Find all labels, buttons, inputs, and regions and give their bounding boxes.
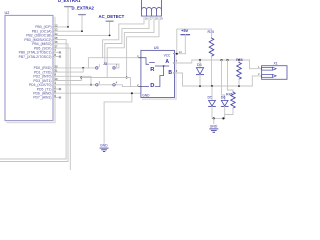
wire PD7 no-connect stub (53, 97, 61, 99)
junction dot leg4 on mid rail (126, 77, 128, 79)
ground GND (right) (210, 124, 218, 132)
svg-text:R30: R30 (208, 30, 215, 34)
U5 pin stubs (139, 54, 176, 87)
svg-text:GND: GND (142, 93, 150, 97)
svg-text:VCC: VCC (164, 53, 171, 57)
jumper J3 pin1 (96, 67, 98, 69)
wire top bus drop to R45 (228, 60, 234, 92)
U5 internal A-B link (163, 66, 165, 76)
wire J3 pin3 to pin4 row (98, 84, 113, 86)
connector X1 (258, 61, 287, 79)
IC U5 body (141, 50, 175, 97)
wire PB3 down to bottom-left exit (0, 40, 66, 159)
wire down to GND symbol (103, 102, 105, 143)
wire top bus drop to D6 (222, 60, 225, 100)
svg-text:D4: D4 (197, 63, 202, 67)
power +5V symbol (181, 28, 190, 54)
wire PB6 no-connect stub (53, 52, 61, 54)
filter pin numbers (145, 17, 163, 20)
IC U5 shadow (143, 52, 177, 99)
wire PD0 to J3 pin1 (53, 67, 96, 69)
svg-text:PB7_(XTAL2/TOSC2): PB7_(XTAL2/TOSC2) (19, 55, 52, 59)
svg-text:2: 2 (258, 72, 260, 76)
junction dot PB2 corner (109, 35, 111, 37)
svg-text:1: 1 (99, 64, 101, 68)
svg-text:1: 1 (258, 65, 260, 69)
resistor R30 (208, 29, 215, 86)
wire PB5 down to bottom exit (53, 48, 70, 170)
svg-text:D_EXTRA1: D_EXTRA1 (58, 0, 81, 3)
wire filter leg2 staircase to J3 pin2 (105, 16, 149, 68)
svg-text:D5: D5 (208, 96, 213, 100)
svg-text:3: 3 (99, 81, 101, 85)
junction dot PD0/PD1 (82, 67, 84, 69)
svg-text:4: 4 (116, 81, 118, 85)
J3 pin numbers (99, 64, 118, 85)
svg-text:26: 26 (145, 17, 148, 20)
svg-text:D6: D6 (221, 96, 226, 100)
wire PB4 down to bottom-left exit (0, 44, 68, 162)
wire branch up to U5 R line (88, 58, 140, 68)
wire filter leg3 staircase to mid rail (107, 16, 154, 77)
svg-text:J3: J3 (103, 62, 107, 66)
jumper J3 pin2 (113, 67, 115, 69)
svg-text:D_EXTRA2: D_EXTRA2 (72, 6, 95, 11)
bottom bus wire (212, 117, 225, 119)
wire top bus to X1 pin1 (250, 60, 262, 69)
chip U2 body (5, 15, 53, 120)
wire PD4 row to J3 pin3 (53, 84, 96, 86)
jumper J3 pin4 (113, 84, 115, 86)
net label D_EXTRA2 (72, 6, 95, 15)
wire mid rail to U5 D feed (81, 78, 130, 87)
diode D5 (208, 86, 216, 118)
chip U2 PB pin numbers (54, 23, 58, 57)
svg-text:X1: X1 (274, 61, 278, 65)
chip U2 PD pin labels (29, 66, 52, 100)
ground GND (left) (100, 144, 108, 152)
svg-text:28: 28 (155, 17, 158, 20)
wire PB1 to D_EXTRA2 (53, 15, 82, 32)
wire U5 A output to top bus (175, 60, 250, 63)
junction dot PB0 corner (67, 26, 69, 28)
svg-text:A: A (165, 59, 169, 65)
bottom bus dots (213, 117, 215, 119)
U5 pin numbers (137, 50, 182, 87)
wire U5 B output to lower bus (175, 73, 183, 86)
svg-text:27: 27 (150, 17, 153, 20)
resistor R45 (225, 92, 236, 115)
diode D4 (196, 60, 203, 86)
svg-text:U2: U2 (5, 11, 10, 15)
U5 internal R input glyph (141, 58, 169, 66)
chip U2 PB pin labels (19, 25, 52, 59)
svg-text:B: B (168, 70, 172, 76)
wire J3 pin4 to U5 D input (115, 85, 141, 87)
wire filter leg4 staircase to mid rail (127, 16, 159, 77)
junction dot VCC (176, 53, 178, 55)
wire lower bus to X1 pin2 (252, 76, 261, 86)
filter network (clipped at top) (142, 0, 162, 16)
wire GND rail to PD6/U5 GND line (104, 93, 132, 102)
net label D_EXTRA1 (clipped at top) (58, 0, 81, 7)
svg-text:AC_DETECT: AC_DETECT (99, 14, 125, 19)
resistor R28 (236, 58, 243, 86)
chip U2 PD pin numbers (54, 64, 58, 98)
top bus junction dots (199, 59, 201, 61)
U5 internal D input glyph (141, 76, 164, 87)
wire PD1 up to PD0 (53, 68, 83, 72)
wire PD5 no-connect stub (53, 88, 61, 90)
wire filter leg1 staircase to U5 R net (103, 16, 144, 58)
wire PD2 elbow to PD4 row (53, 76, 91, 85)
lower bus wire (183, 85, 253, 87)
junction dot PD2 join (90, 84, 92, 86)
svg-text:PD7_(AIN1): PD7_(AIN1) (33, 96, 51, 100)
wire to right GND (213, 118, 215, 123)
svg-text:GND: GND (210, 124, 218, 128)
wire PB2 to AC_DETECT (53, 21, 110, 35)
lower bus junction dots (199, 85, 201, 87)
wire PB0 to D_EXTRA1 (53, 7, 68, 27)
svg-text:+5V: +5V (181, 28, 189, 33)
jumper J3 pin3 (96, 84, 98, 86)
wire PB7 no-connect stub (53, 56, 61, 58)
svg-text:U5: U5 (154, 46, 159, 50)
svg-text:D: D (150, 83, 154, 89)
wire PD3 jog up to mid rail (53, 78, 81, 81)
chip U2 shadow (7, 17, 55, 122)
junction dot PB1 corner (81, 30, 83, 32)
wire +5V top rail (177, 29, 212, 54)
diode D6 (221, 96, 228, 119)
junction dot PD3 jog (80, 77, 82, 79)
junction dot GND rail (131, 92, 133, 94)
net label AC_DETECT (99, 14, 125, 21)
wire U5 VCC pin (175, 53, 186, 55)
svg-text:GND: GND (100, 144, 108, 148)
svg-text:29: 29 (160, 17, 163, 20)
wire PD6 to U5 GND (53, 92, 141, 94)
